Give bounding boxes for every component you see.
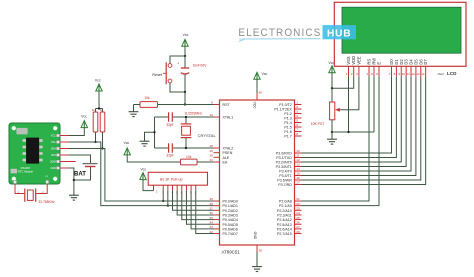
wire P3.0 to LCD D0	[302, 77, 392, 153]
svg-text:26: 26	[296, 220, 300, 224]
svg-text:12: 12	[296, 158, 300, 162]
wire R2 bottom to SDA line	[102, 132, 104, 149]
svg-text:EA: EA	[223, 161, 228, 165]
svg-text:30: 30	[209, 154, 213, 158]
svg-text:2: 2	[296, 105, 298, 109]
U1 right pin stubs	[295, 105, 302, 234]
LCD pin numbers 1-14	[346, 72, 425, 76]
junction SDA/P0.0	[162, 200, 164, 202]
capacitor C1 33pF plates	[169, 112, 173, 121]
svg-text:CRYSTAL: CRYSTAL	[198, 133, 217, 138]
svg-text:P0.4/AD4: P0.4/AD4	[223, 218, 238, 222]
wire capacitor ground bus	[154, 117, 156, 148]
power terminal Vcc (RTC)	[81, 114, 87, 127]
svg-text:Vcc: Vcc	[140, 167, 146, 171]
ground (RTC)	[69, 188, 79, 200]
wire LCD RW pin5 to ground rail	[373, 77, 375, 132]
svg-text:E: E	[377, 62, 382, 65]
resistor R3 10k (reset pulldown)	[140, 102, 158, 108]
svg-text:HUB: HUB	[327, 28, 351, 39]
wire Vcc to pot top	[331, 73, 333, 102]
wire Vcc to U1 pin 40	[256, 79, 258, 93]
wire C1 left to cap bus	[155, 116, 169, 118]
junction SCL/P0.1	[167, 205, 169, 207]
junction crystal-XTAL2	[185, 147, 187, 149]
U1 pin 20 stub	[257, 245, 262, 253]
svg-text:40: 40	[259, 91, 263, 95]
wire reset node down to RST line	[184, 92, 186, 105]
label 10uF/16V	[193, 64, 208, 68]
label 10K POT	[311, 122, 325, 126]
svg-text:D7: D7	[423, 59, 428, 65]
svg-text:RTC Module: RTC Module	[18, 170, 34, 174]
wire R3 to RST pin	[158, 104, 214, 106]
svg-text:P2.6/A14: P2.6/A14	[277, 227, 292, 231]
wire pot bottom to ground	[331, 120, 333, 132]
RTC module IC DS1307 chip	[23, 138, 43, 164]
LCD display module LCD1 16x2 (body)	[334, 2, 466, 66]
wire U1 pin 20 to ground	[256, 252, 258, 259]
svg-text:6: 6	[296, 123, 298, 127]
label AT89C51	[222, 250, 241, 255]
resistor network RN1 8x 1K Pull-up body	[148, 172, 207, 185]
svg-text:P3.0/RXD: P3.0/RXD	[276, 152, 292, 156]
svg-text:SCL: SCL	[51, 141, 56, 144]
LCD pin stubs 1-14	[349, 66, 426, 77]
power terminal Vcc (U1 pin 40)	[254, 72, 268, 79]
junction pot-ground rail	[331, 131, 333, 133]
U1 pin VCC 40 rotated label	[253, 102, 257, 110]
power terminal Vcc (reset)	[182, 33, 189, 46]
crystal X2 11.0592MHz	[181, 117, 192, 148]
U1 pin GND 20 rotated label	[253, 232, 257, 240]
logo ELECTRONICS HUB	[238, 25, 356, 41]
ground (crystal caps)	[140, 134, 150, 146]
svg-text:PSEN: PSEN	[223, 151, 233, 155]
svg-text:10: 10	[402, 72, 406, 76]
junction crystal-XTAL1	[185, 116, 187, 118]
ground (reset pulldown)	[129, 105, 139, 117]
svg-text:DS1307: DS1307	[21, 166, 31, 170]
svg-text:8x 1K Pull-up: 8x 1K Pull-up	[160, 177, 183, 181]
wire RN1 pin5 to P0.3	[177, 191, 213, 215]
label BAT	[74, 171, 86, 177]
ground (pot)	[327, 132, 337, 144]
svg-text:16x2: 16x2	[437, 72, 444, 76]
svg-text:P1.4: P1.4	[284, 121, 291, 125]
svg-text:8: 8	[296, 132, 298, 136]
junction battery-ground	[73, 179, 75, 181]
svg-text:22: 22	[296, 202, 300, 206]
svg-text:3: 3	[296, 110, 298, 114]
svg-text:P3.7/RD: P3.7/RD	[278, 183, 292, 187]
wire RN1 pin4 to P0.2	[173, 191, 214, 211]
ground rail wire under pot	[332, 131, 374, 133]
junction cap bus to ground tap	[153, 131, 155, 133]
RTC module small component	[11, 169, 18, 174]
junction capacitor bottom node	[184, 91, 186, 93]
svg-text:P1.1/T2EX: P1.1/T2EX	[274, 108, 292, 112]
RN1 pin stubs 2-9	[162, 185, 197, 194]
junction R1-SCL	[94, 141, 96, 143]
battery B1 BAT	[69, 155, 98, 180]
svg-text:Vcc: Vcc	[81, 114, 87, 118]
U1 left pin names	[223, 103, 238, 236]
svg-text:P2.4/A12: P2.4/A12	[277, 218, 292, 222]
svg-text:25: 25	[296, 216, 300, 220]
svg-text:P3.1/TXD: P3.1/TXD	[276, 156, 292, 160]
wire P3.5 to LCD D5	[302, 77, 416, 176]
svg-text:11: 11	[296, 154, 299, 158]
wire P3.4 to LCD D4	[302, 77, 412, 171]
wire C2 left to cap bus	[155, 147, 169, 149]
svg-text:Vcc: Vcc	[124, 141, 130, 145]
svg-text:1: 1	[296, 101, 298, 105]
resistor R1 1k body	[93, 112, 98, 132]
power terminal Vcc (I2C pull-ups)	[95, 79, 102, 92]
svg-text:33pF: 33pF	[166, 123, 173, 127]
svg-text:Vcc: Vcc	[183, 33, 189, 37]
U1 left pin numbers 9 19 18 29 30 31 39-32	[209, 101, 213, 234]
wire SCL net RTC to P0.1	[69, 142, 214, 206]
svg-text:11: 11	[407, 72, 410, 76]
wire SDA net RTC to P0.0	[69, 149, 214, 202]
svg-text:20: 20	[259, 249, 263, 253]
wire XTAL1 line	[173, 116, 214, 118]
junction R2-SDA	[101, 147, 103, 149]
svg-text:32.768KHz: 32.768KHz	[38, 200, 55, 204]
svg-text:29: 29	[209, 149, 213, 153]
svg-text:P0.5/AD5: P0.5/AD5	[223, 223, 238, 227]
svg-text:33pF: 33pF	[166, 154, 173, 158]
wire RN1 pin9 to P0.7	[196, 191, 214, 234]
wire Vcc to R1 R2 tops	[96, 91, 103, 112]
label 11.0592MHz	[184, 111, 202, 115]
U1 right pin names	[274, 103, 292, 236]
svg-text:10: 10	[296, 149, 300, 153]
svg-text:P1.5: P1.5	[284, 126, 291, 130]
LCD green screen	[342, 7, 461, 53]
svg-text:23: 23	[296, 207, 300, 211]
crystal X1 32.768KHz wires	[15, 184, 47, 194]
wire RN1 pin6 to P0.4	[182, 191, 214, 220]
crystal X1 32.768KHz symbol	[25, 189, 36, 202]
svg-text:10K POT: 10K POT	[311, 122, 325, 126]
svg-text:P0.2/AD2: P0.2/AD2	[223, 209, 238, 213]
svg-text:P2.1/A9: P2.1/A9	[279, 204, 292, 208]
svg-text:ELECTRONICS: ELECTRONICS	[238, 27, 321, 39]
ground (U1 GND)	[252, 259, 262, 271]
RTC module DS1307 PCB	[9, 123, 60, 184]
svg-text:BAT: BAT	[51, 154, 56, 157]
svg-text:P1.3: P1.3	[284, 117, 291, 121]
svg-text:28: 28	[296, 230, 300, 234]
svg-text:Vcc: Vcc	[262, 72, 268, 76]
svg-text:P0.0/AD0: P0.0/AD0	[223, 200, 238, 204]
svg-text:Reset: Reset	[152, 73, 162, 77]
svg-text:P3.5/T1: P3.5/T1	[279, 174, 292, 178]
svg-text:7: 7	[296, 128, 298, 132]
RTC module bottom crystal pads X1 X2	[13, 176, 48, 184]
svg-text:+: +	[177, 62, 179, 66]
wire RN1 pin8 to P0.6	[191, 191, 213, 229]
junction R1R2 top	[98, 107, 100, 109]
wire top node to reset button	[170, 56, 185, 63]
wire RN1 pin7 to P0.5	[186, 191, 213, 225]
wire P3.3 to LCD D3	[302, 77, 407, 167]
RTC module crystal can (gray)	[16, 128, 27, 134]
RTC module pin labels VCC SCL SDA BAT SQW GND	[50, 135, 56, 171]
wire P3.1 to LCD D1	[302, 77, 397, 158]
junction reset top node	[184, 55, 186, 57]
LCD pin name labels VSS VDD VEE RS RW E D0-D7	[346, 56, 428, 65]
label 16x2 LCD	[437, 71, 457, 76]
label 8x 1K Pull-up	[160, 177, 183, 181]
wire XTAL2 line	[173, 147, 214, 149]
potentiometer RV1 10K POT body	[330, 102, 340, 120]
label 33pF (C1)	[166, 123, 173, 127]
svg-text:P1.6: P1.6	[284, 130, 291, 134]
svg-text:P0.6/AD6: P0.6/AD6	[223, 227, 238, 231]
RTC module right pin pads	[56, 134, 59, 170]
U1 pin 40 stub	[257, 91, 262, 100]
label 10k (EA)	[186, 155, 192, 159]
junction RST line	[184, 103, 186, 105]
wire P2.0 to LCD RS	[302, 77, 370, 201]
svg-text:17: 17	[296, 181, 300, 185]
svg-text:P1.2: P1.2	[284, 112, 291, 116]
svg-text:13: 13	[296, 163, 300, 167]
RN1 pin 1 stub	[154, 185, 159, 193]
svg-text:SQW: SQW	[50, 161, 56, 164]
label 1k (R1)	[92, 108, 96, 112]
label 32.768KHz	[38, 200, 55, 204]
wire RTC GND pin to ground	[69, 168, 74, 188]
svg-text:SDA: SDA	[51, 148, 56, 151]
wire P3.7 to LCD D7	[302, 77, 426, 185]
svg-text:RST: RST	[223, 103, 231, 107]
wire reset button bottom to RST node	[170, 83, 185, 92]
wire Vcc to RN1 pin 1	[143, 180, 154, 191]
svg-text:11.0592MHz: 11.0592MHz	[184, 111, 202, 115]
svg-text:P3.4/T0: P3.4/T0	[279, 170, 292, 174]
svg-text:12: 12	[411, 72, 415, 76]
svg-text:4: 4	[296, 114, 298, 118]
svg-text:P3.3/INT1: P3.3/INT1	[276, 165, 292, 169]
svg-text:P2.5/A13: P2.5/A13	[277, 223, 292, 227]
wire Vcc to R4	[127, 155, 180, 162]
label CRYSTAL	[198, 133, 217, 138]
svg-text:XTAL1: XTAL1	[223, 116, 234, 120]
svg-text:P3.2/INT0: P3.2/INT0	[276, 161, 292, 165]
svg-text:5: 5	[296, 119, 298, 123]
svg-text:21: 21	[296, 197, 300, 201]
resistor R4 10k (EA)	[181, 159, 198, 165]
svg-text:24: 24	[296, 211, 300, 215]
RTC SQW/OUT pin stub (unconnected)	[60, 161, 76, 163]
wire RN1 pin3 to P0.1 net	[167, 191, 169, 206]
wire R4 to EA pin	[197, 161, 214, 163]
power terminal Vcc (pull-up network)	[140, 167, 147, 179]
svg-text:P1.0/T2: P1.0/T2	[279, 103, 292, 107]
svg-text:ALE: ALE	[223, 156, 230, 160]
label 33pF (C2)	[166, 154, 173, 158]
svg-text:10uF/16V: 10uF/16V	[193, 64, 208, 68]
capacitor C3 10uF/16V (electrolytic)	[177, 56, 189, 92]
svg-text:Vcc: Vcc	[95, 79, 101, 83]
RTC module silkscreen text DS1307 RTC Module	[18, 166, 34, 174]
svg-text:GND: GND	[253, 232, 257, 240]
wire LCD VEE pin3 to potentiometer wiper	[340, 77, 359, 110]
svg-text:P0.7/AD7: P0.7/AD7	[223, 232, 238, 236]
svg-text:10k: 10k	[144, 96, 150, 100]
svg-text:13: 13	[416, 72, 420, 76]
power terminal Vcc (pot)	[328, 61, 335, 73]
wire LCD VDD pin2 to Vcc	[332, 77, 354, 88]
svg-text:10k: 10k	[186, 155, 192, 159]
wire P2.1 to LCD E	[302, 77, 380, 206]
svg-text:Vcc: Vcc	[328, 61, 334, 65]
push button Reset	[163, 62, 172, 84]
svg-text:P2.2/A10: P2.2/A10	[277, 209, 292, 213]
RTC module mounting holes	[12, 126, 58, 181]
svg-text:VCC: VCC	[51, 135, 56, 138]
svg-text:GND: GND	[50, 167, 56, 170]
svg-text:AT89C51: AT89C51	[222, 250, 241, 255]
label 10k (reset)	[144, 96, 150, 100]
capacitor C2 33pF plates	[169, 143, 173, 152]
svg-text:14: 14	[296, 167, 300, 171]
svg-text:VCC: VCC	[253, 102, 257, 110]
resistor R2 1k body	[100, 112, 105, 132]
wire RTC VCC pin to Vcc	[69, 128, 85, 136]
wire P3.6 to LCD D6	[302, 77, 421, 180]
svg-text:15: 15	[296, 172, 300, 176]
svg-text:BAT: BAT	[74, 171, 86, 177]
svg-text:P0.1/AD1: P0.1/AD1	[223, 204, 238, 208]
U1 left pin stubs	[214, 105, 220, 234]
svg-text:XTAL2: XTAL2	[223, 147, 234, 151]
svg-text:P0.3/AD3: P0.3/AD3	[223, 213, 238, 217]
U1 right pin numbers 1-8 10-17 21-28	[296, 101, 300, 234]
wire RN1 pin2 to P0.0 net	[162, 191, 164, 201]
label Reset	[152, 73, 162, 77]
svg-text:LCD: LCD	[447, 71, 457, 76]
svg-text:14: 14	[421, 72, 425, 76]
svg-text:16: 16	[296, 176, 300, 180]
wire LCD VSS pin1 to ground rail	[348, 77, 350, 132]
svg-text:P2.3/A11: P2.3/A11	[277, 213, 292, 217]
wire R1 bottom to SCL line	[95, 132, 97, 142]
wire cap bus to ground	[145, 132, 155, 134]
wire R3 to ground	[134, 104, 141, 106]
RTC pin stubs	[60, 136, 69, 169]
svg-text:27: 27	[296, 225, 300, 229]
power terminal Vcc (EA)	[124, 141, 131, 155]
wire P3.2 to LCD D2	[302, 77, 402, 162]
junction VSS-ground rail	[347, 131, 349, 133]
svg-text:P1.7: P1.7	[284, 135, 291, 139]
svg-text:VEE: VEE	[356, 56, 361, 64]
label 1k (R2)	[100, 108, 104, 112]
svg-text:P2.7/A15: P2.7/A15	[277, 232, 292, 236]
microcontroller U1 AT89C51 body	[220, 100, 295, 245]
junction VDD-Vcc	[331, 87, 333, 89]
svg-text:P3.6/WR: P3.6/WR	[277, 179, 292, 183]
wire Vcc down to reset node	[184, 46, 186, 56]
svg-text:P2.0/A8: P2.0/A8	[279, 200, 292, 204]
